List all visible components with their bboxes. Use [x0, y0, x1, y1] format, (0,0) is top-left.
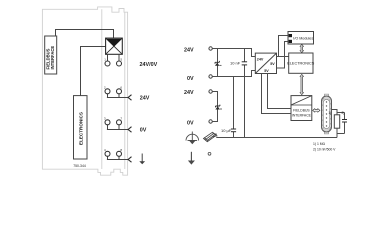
- svg-text:10 nF: 10 nF: [230, 61, 241, 66]
- svg-text:I/O Modules: I/O Modules: [293, 36, 313, 40]
- svg-text:24V: 24V: [257, 58, 264, 62]
- svg-text:0V: 0V: [187, 76, 194, 82]
- svg-text:INTERFACE: INTERFACE: [292, 113, 312, 117]
- module housing outline: [42, 7, 127, 175]
- contact row 3: [107, 125, 128, 130]
- capacitor 10 uF field: [221, 77, 236, 138]
- contact 7: [117, 120, 122, 125]
- svg-text:1): 1): [328, 111, 331, 115]
- suppressor diode system side: [215, 49, 222, 77]
- svg-text:2): 2): [342, 111, 345, 115]
- electronics box (module): [74, 96, 88, 159]
- wire DC/DC to fieldbus interface 2: [268, 74, 292, 109]
- capacitor 10nF/500V: [342, 111, 348, 133]
- contact row 4: [107, 156, 128, 159]
- contact 6: [117, 89, 122, 94]
- grounding network bottom wire: [337, 134, 345, 138]
- suppressor diode field side: [215, 105, 222, 110]
- svg-text:1) 1 MΩ: 1) 1 MΩ: [313, 142, 326, 146]
- terminal 24V field: [209, 90, 212, 93]
- clamp contact row 3: [128, 127, 131, 133]
- arrow I/O to electronics: [300, 44, 304, 52]
- small circle marker: [208, 152, 211, 155]
- arrow electronics to fieldbus interface: [300, 74, 304, 94]
- DC/DC converter: [255, 53, 276, 73]
- svg-text:0V: 0V: [140, 127, 147, 133]
- resistor 1M: [328, 111, 339, 133]
- terminal 0V system: [209, 75, 212, 78]
- clamp contact row 4: [128, 157, 131, 163]
- earth arrow (field): [188, 152, 195, 165]
- wire DC/DC second output: [277, 42, 289, 69]
- svg-text:ELECTRONICS: ELECTRONICS: [287, 62, 314, 66]
- svg-text:FIELDBUS: FIELDBUS: [293, 109, 310, 113]
- contact row 1 stubs: [108, 54, 120, 61]
- svg-text:24V: 24V: [140, 96, 150, 102]
- capacitor 10 nF system: [230, 49, 247, 138]
- terminal 24V system: [209, 47, 212, 50]
- wire connector to grounding network: [332, 110, 345, 113]
- clamp contact row 2: [128, 95, 131, 101]
- fieldbus connector: [322, 94, 332, 134]
- wire 24V rail: [212, 49, 255, 57]
- wire electronics box to rectifier: [81, 47, 106, 96]
- wire DC/DC to fieldbus interface 1: [262, 74, 292, 114]
- protective earth symbol: [186, 132, 199, 144]
- DIN rail contact icon: [204, 132, 218, 142]
- I/O modules box: [288, 32, 314, 45]
- wire tap to I/O modules top: [279, 36, 289, 57]
- svg-text:2) 10 nF/500 V: 2) 10 nF/500 V: [313, 147, 336, 151]
- svg-text:INTERFACE: INTERFACE: [50, 46, 55, 70]
- rectifier / supply symbol: [106, 38, 123, 54]
- contact 3: [105, 120, 110, 125]
- contact 1: [105, 61, 110, 66]
- terminal 0V field: [209, 120, 212, 123]
- svg-text:10 µF: 10 µF: [221, 128, 232, 133]
- electronics box (schematic): [287, 53, 314, 73]
- svg-text:0V: 0V: [187, 121, 194, 127]
- earth symbol module: [139, 154, 145, 165]
- contact row 2: [107, 94, 128, 98]
- fieldbus interface box (schematic): [291, 96, 312, 121]
- svg-text:24V: 24V: [184, 48, 194, 54]
- contact 2: [105, 89, 110, 94]
- arrow fieldbus to connector: [313, 108, 320, 112]
- wire field loop: [212, 92, 217, 122]
- contact 5: [117, 61, 122, 66]
- svg-text:ELECTRONICS: ELECTRONICS: [79, 112, 84, 145]
- svg-text:750-344: 750-344: [73, 164, 86, 168]
- contact 4: [105, 151, 110, 156]
- svg-text:5V: 5V: [264, 69, 269, 73]
- svg-text:5V: 5V: [270, 62, 275, 66]
- earth line: [216, 137, 337, 139]
- fieldbus interface box (module): [45, 36, 57, 74]
- wire DC/DC to electronics: [277, 56, 289, 58]
- wire fieldbus box to rectifier: [56, 30, 114, 39]
- svg-text:24V: 24V: [184, 90, 194, 96]
- contact 8: [117, 151, 122, 156]
- wire 0V rail: [212, 71, 255, 77]
- svg-text:24V/0V: 24V/0V: [140, 62, 158, 68]
